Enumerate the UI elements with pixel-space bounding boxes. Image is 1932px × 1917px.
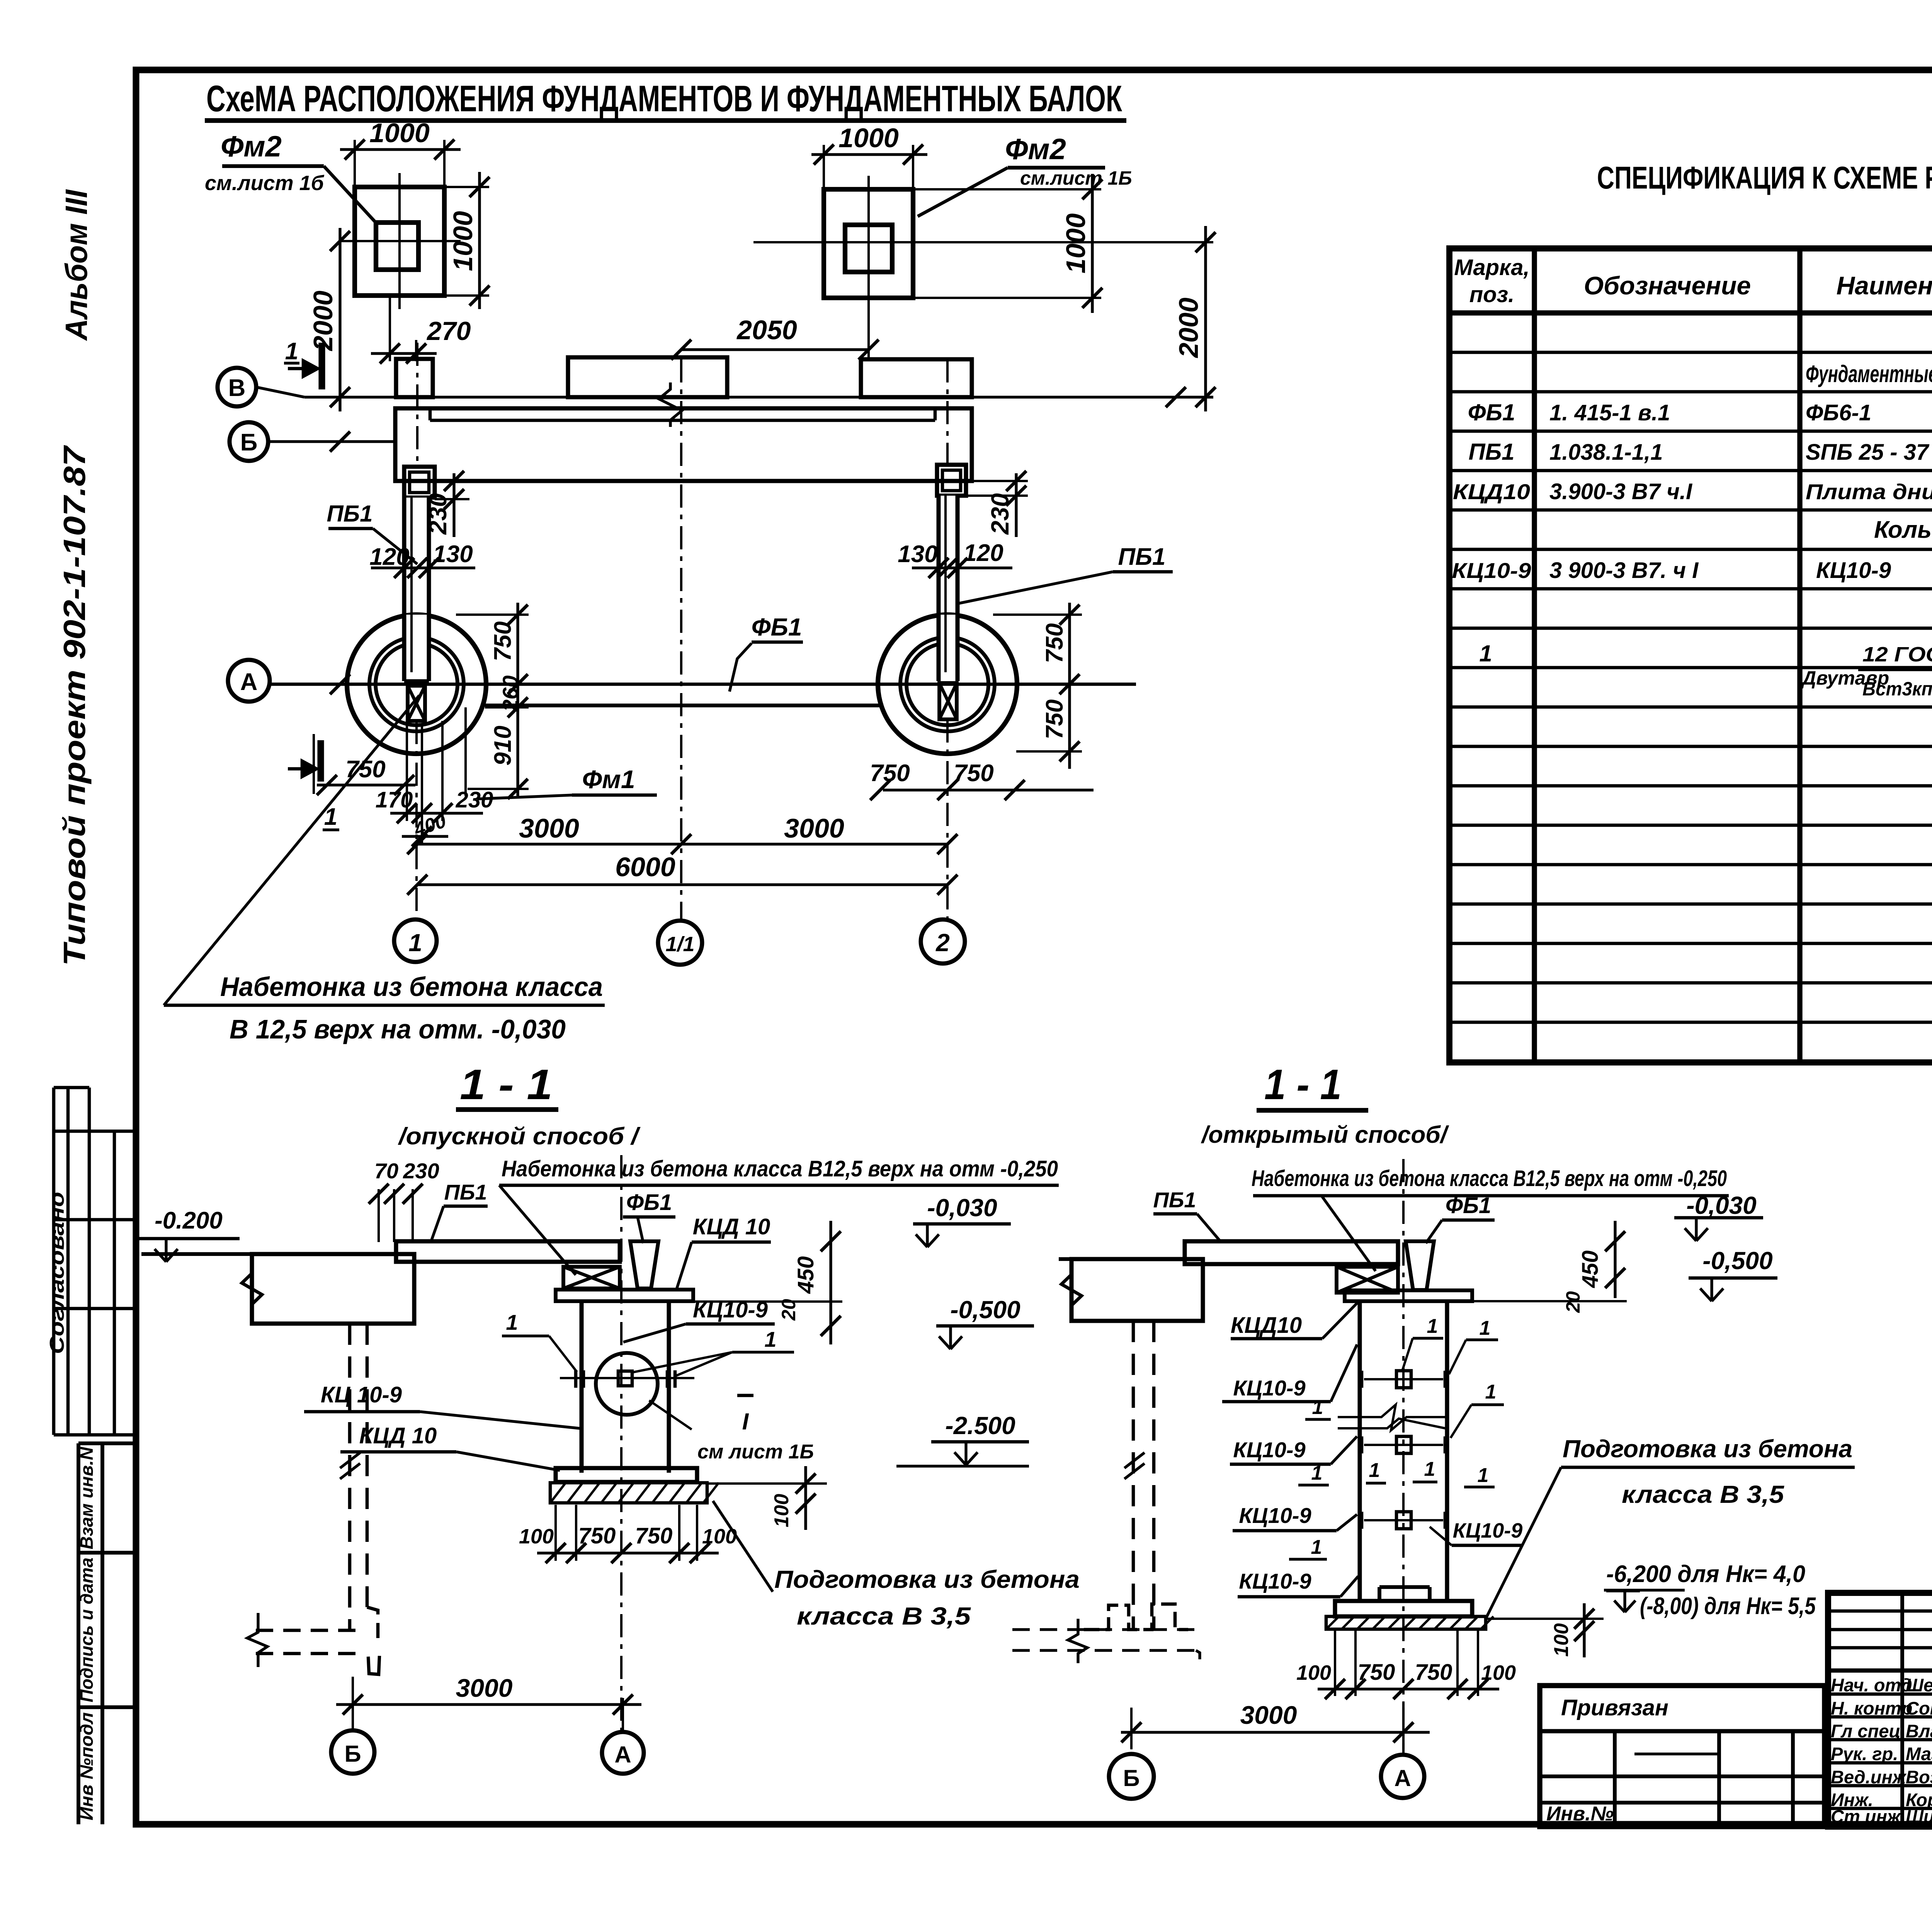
axis circle А (right section) <box>1381 1755 1424 1798</box>
svg-text:1: 1 <box>1311 1462 1323 1484</box>
svg-text:2050: 2050 <box>736 315 797 345</box>
dimension 2000 left (vertical) <box>308 228 350 411</box>
svg-text:ПБ1: ПБ1 <box>444 1180 487 1204</box>
dimensions 750 750 right of right well (vertical) <box>993 603 1082 769</box>
level mark -0,030 (left section) <box>913 1194 1011 1247</box>
svg-text:1: 1 <box>764 1327 776 1351</box>
svg-text:Вст3кп2ГОСТ535-79*: Вст3кп2ГОСТ535-79* <box>1862 678 1932 700</box>
hidden wall dashed lines (left section) <box>340 1324 379 1674</box>
beam ФБ1 trapezoid (right section) <box>1406 1241 1434 1290</box>
dimensions 170 230 400 below left well <box>376 707 493 846</box>
concrete prep hatched strip (left section) <box>550 1483 719 1503</box>
svg-text:1: 1 <box>506 1310 518 1334</box>
dimension 3000 axes Б-А (left section) <box>336 1674 641 1732</box>
svg-text:см лист 1Б: см лист 1Б <box>697 1441 814 1463</box>
labels КЦ10-9 x4 (right section) <box>1222 1344 1358 1597</box>
dimension 70 230 (left section) <box>369 1159 439 1242</box>
title block Привязан table <box>1540 1686 1825 1827</box>
beam strip over right well <box>939 615 957 681</box>
dimension 230 right <box>966 471 1028 537</box>
spec table header texts <box>1454 253 1932 315</box>
svg-text:-0,500: -0,500 <box>1702 1247 1772 1275</box>
svg-text:1: 1 <box>285 338 298 365</box>
dimension 6000 (plan bottom) <box>407 852 957 895</box>
label ФБ1 with leader (plan) <box>730 613 803 692</box>
labels 1 1 with leaders (left section) <box>502 1310 794 1376</box>
svg-text:750: 750 <box>1358 1660 1395 1685</box>
svg-text:100: 100 <box>519 1525 554 1548</box>
svg-text:1: 1 <box>408 929 422 957</box>
axis line 1 (vertical) <box>417 343 417 919</box>
dimension 3000 axes Б-А (right section) <box>1121 1701 1430 1749</box>
svg-text:Подготовка из бетона: Подготовка из бетона <box>774 1565 1080 1593</box>
svg-text:Вед.инж: Вед.инж <box>1831 1767 1907 1787</box>
dimension 450 20 (right section) <box>1472 1221 1627 1313</box>
svg-text:Б: Б <box>240 429 258 456</box>
label ПБ1 right with leader <box>958 544 1173 603</box>
svg-text:-0,030: -0,030 <box>1686 1191 1756 1219</box>
svg-text:1: 1 <box>1311 1536 1322 1558</box>
label ФБ1 (left section) <box>623 1190 675 1243</box>
level mark -2.500 (left section) <box>896 1412 1029 1466</box>
svg-text:Марка,: Марка, <box>1454 255 1529 280</box>
svg-text:ПБ1: ПБ1 <box>1468 439 1514 465</box>
svg-text:см.лист 1Б: см.лист 1Б <box>1020 167 1132 189</box>
footing Фм2 right square <box>753 176 1213 359</box>
svg-text:100: 100 <box>770 1494 793 1528</box>
label ФБ1 (right section) <box>1426 1193 1495 1243</box>
note Подготовка из бетона класса В 3,5 (left section) <box>713 1501 1080 1630</box>
wall section (left section) <box>141 1254 414 1324</box>
svg-text:Б: Б <box>344 1741 361 1767</box>
svg-text:Нач. отд.: Нач. отд. <box>1831 1675 1917 1695</box>
dimension 120 130 left <box>369 541 475 578</box>
axis circle Б (left section) <box>331 1730 374 1774</box>
dimension 100 (left section bottom) <box>707 1466 827 1530</box>
svg-text:450: 450 <box>793 1256 818 1294</box>
svg-text:Н. контр: Н. контр <box>1831 1698 1912 1718</box>
beam end cross mark right well <box>939 683 957 719</box>
svg-text:А: А <box>1394 1765 1411 1791</box>
svg-text:В 12,5 верх на отм. -0,030: В 12,5 верх на отм. -0,030 <box>230 1014 566 1044</box>
svg-text:Фм2: Фм2 <box>221 130 282 163</box>
spec table rows data <box>1452 361 1932 741</box>
svg-text:100: 100 <box>1481 1661 1516 1684</box>
svg-text:класса В 3,5: класса В 3,5 <box>1622 1480 1785 1508</box>
svg-text:Наименование: Наименование <box>1837 271 1932 300</box>
svg-text:Плита днища КЦД10: Плита днища КЦД10 <box>1806 479 1932 504</box>
label КЦД10 (right section) <box>1231 1302 1358 1339</box>
footing Фм2 left square <box>340 173 461 309</box>
note Набетонка В12,5 отм -0,250 (right section) <box>1252 1166 1729 1271</box>
bottom plate КЦД10 (left section) <box>556 1468 697 1482</box>
svg-text:100: 100 <box>1550 1623 1573 1657</box>
svg-text:ФБ1: ФБ1 <box>1468 399 1515 425</box>
svg-text:1. 415-1 в.1: 1. 415-1 в.1 <box>1549 400 1670 425</box>
svg-text:Инв.№: Инв.№ <box>1546 1803 1614 1825</box>
axis line В <box>304 387 1213 407</box>
note Набетонка В12,5 отм -0,250 (left section) <box>499 1156 1059 1275</box>
svg-text:1: 1 <box>1478 1464 1489 1487</box>
svg-text:ФБ1: ФБ1 <box>626 1190 672 1215</box>
svg-text:910: 910 <box>490 726 516 765</box>
level mark -0,030 (right section) <box>1674 1191 1763 1241</box>
svg-text:Б: Б <box>1123 1765 1139 1791</box>
svg-text:Обозначение: Обозначение <box>1584 271 1751 300</box>
svg-text:/открытый способ/: /открытый способ/ <box>1201 1122 1449 1148</box>
svg-text:Подпись и дата: Подпись и дата <box>77 1558 97 1703</box>
svg-text:Фм1: Фм1 <box>582 765 635 794</box>
svg-text:450: 450 <box>1578 1251 1603 1288</box>
pit bottom dashed steps (left section) <box>247 1613 364 1667</box>
label Фм1 with leader <box>477 765 657 799</box>
svg-text:поз.: поз. <box>1469 282 1515 307</box>
beam end cross mark left well <box>408 686 425 721</box>
label I см лист 1Б (left section) <box>649 1395 814 1463</box>
svg-text:КЦ 10-9: КЦ 10-9 <box>321 1382 402 1407</box>
plan title СХЕМА РАСПОЛОЖЕНИЯ ФУНДАМЕНТОВ И ФУНДАМЕНТНЫХ БАЛОК <box>205 78 1126 121</box>
svg-text:3000: 3000 <box>519 813 579 843</box>
axis circle В <box>218 368 304 406</box>
dimension 2000 right (vertical) <box>1173 226 1216 411</box>
svg-text:120: 120 <box>369 544 409 570</box>
level mark -0,200 (left section) <box>138 1207 240 1262</box>
svg-text:100: 100 <box>1296 1661 1331 1684</box>
svg-text:А: А <box>614 1742 631 1767</box>
svg-text:Ст инж: Ст инж <box>1831 1806 1901 1827</box>
svg-text:-0,030: -0,030 <box>927 1194 997 1222</box>
svg-text:3000: 3000 <box>1240 1701 1297 1729</box>
dimension 230 left <box>424 471 469 537</box>
dimension 750 750 below right well <box>870 760 1094 800</box>
svg-text:230: 230 <box>986 493 1014 535</box>
svg-text:КЦ10-9: КЦ10-9 <box>1239 1503 1311 1528</box>
svg-text:Шейко: Шейко <box>1906 1675 1932 1695</box>
svg-text:2: 2 <box>935 929 950 957</box>
svg-text:Возианов: Возианов <box>1906 1767 1932 1787</box>
svg-text:750: 750 <box>870 760 910 787</box>
dimensions 750 260 910 right of left well <box>456 603 529 799</box>
axis line 1/1 (vertical) <box>680 359 682 921</box>
svg-text:(-8,00) для Нк= 5,5: (-8,00) для Нк= 5,5 <box>1640 1593 1816 1620</box>
axis circle А <box>228 660 270 702</box>
spec table grid <box>1449 248 1932 1062</box>
label КЦ 10-9 lower (left section) <box>304 1382 583 1429</box>
axis circle Б (right section) <box>1109 1754 1154 1799</box>
dimension 750 below left well <box>314 734 415 795</box>
svg-text:Фм2: Фм2 <box>1005 133 1066 166</box>
level -6,200 для Нк=4,0 (right section) <box>1604 1561 1816 1620</box>
left margin text Альбом III <box>59 189 94 341</box>
stamp column Взам инв. / Подпись и дата / Инв №подл <box>77 1443 136 1824</box>
svg-text:Рук. гр.: Рук. гр. <box>1831 1744 1898 1764</box>
svg-text:1: 1 <box>1485 1381 1497 1403</box>
svg-text:1: 1 <box>1479 641 1492 666</box>
svg-text:230: 230 <box>403 1159 439 1183</box>
label КЦД 10 lower (left section) <box>340 1423 560 1470</box>
beam strip ПБ1 axis 2 (plan) <box>939 496 957 615</box>
pit bottom dashed steps (right section) <box>1012 1604 1200 1663</box>
svg-text:Набетонка из бетона класса: Набетонка из бетона класса В12,5 верх на… <box>1252 1166 1727 1191</box>
ring joints in shaft (right section) <box>1338 1371 1445 1529</box>
svg-text:ПБ1: ПБ1 <box>1118 544 1166 570</box>
svg-text:ФБ1: ФБ1 <box>1446 1193 1492 1218</box>
svg-text:/опускной способ /: /опускной способ / <box>398 1123 641 1150</box>
axis circle 2 <box>921 919 965 964</box>
dimension 1000 right of left footing (vertical) <box>444 172 490 309</box>
dimension 1000 above left footing <box>340 118 461 187</box>
svg-text:1: 1 <box>1480 1317 1491 1339</box>
note Набетонка из бетона класса В12,5 (plan) <box>164 695 605 1044</box>
svg-text:230: 230 <box>456 787 493 812</box>
svg-text:КЦ10-9: КЦ10-9 <box>1816 558 1891 583</box>
label ПБ1 (left section) <box>431 1180 488 1242</box>
small labels 1 (right section) <box>1289 1315 1504 1559</box>
wall section (right section) <box>1059 1259 1203 1321</box>
dimension 2050 <box>671 315 879 360</box>
svg-text:класса В 3,5: класса В 3,5 <box>797 1602 971 1630</box>
hole circle in shaft (left section) <box>560 1353 694 1415</box>
label ПБ1 left with leader <box>327 501 417 564</box>
svg-text:750: 750 <box>1041 623 1068 663</box>
label КЦ10-9 upper (left section) <box>623 1297 775 1342</box>
hidden wall dashed lines (right section) <box>1124 1321 1154 1630</box>
svg-text:230: 230 <box>424 493 452 535</box>
level mark -0,500 (right section) <box>1689 1247 1777 1301</box>
well shaft walls (left section) <box>582 1155 669 1732</box>
footing Фм2 right label <box>918 133 1132 216</box>
slab КЦД10 plate (left section) <box>556 1290 693 1301</box>
svg-text:КЦД10: КЦД10 <box>1231 1313 1302 1338</box>
svg-text:Кольца: Кольца <box>1874 517 1932 543</box>
svg-text:см.лист 1б: см.лист 1б <box>205 172 325 195</box>
well ring right (КЦ10-9) <box>878 615 1017 754</box>
svg-text:ПБ1: ПБ1 <box>1153 1188 1196 1212</box>
svg-text:КЦД10: КЦД10 <box>1453 479 1530 504</box>
dimension 270 <box>371 296 471 364</box>
svg-text:Фундаментные балки: Фундаментные балки <box>1806 361 1932 387</box>
svg-text:Набетонка из бетона класса: Набетонка из бетона класса В12,5 верх на… <box>502 1156 1058 1181</box>
svg-text:1 - 1: 1 - 1 <box>1264 1061 1342 1108</box>
svg-text:КЦ10-9: КЦ10-9 <box>1233 1376 1305 1400</box>
svg-text:6000: 6000 <box>615 852 675 882</box>
svg-text:2000: 2000 <box>1173 297 1204 359</box>
svg-text:12 ГОСТ8239-72*: 12 ГОСТ8239-72* <box>1862 643 1932 666</box>
label КЦ10-9 right (right section) <box>1430 1519 1523 1545</box>
svg-text:130: 130 <box>898 541 937 568</box>
cross box Набетонка (right section) <box>1337 1267 1398 1293</box>
svg-text:750: 750 <box>578 1523 616 1548</box>
svg-text:1 - 1: 1 - 1 <box>460 1061 553 1108</box>
title block signature grid <box>1828 1593 1932 1827</box>
cross box Набетонка (left section) <box>563 1267 620 1288</box>
beam ПБ1 rect (right section) <box>1185 1241 1398 1264</box>
section title 1-1 опускной способ <box>398 1061 641 1150</box>
svg-text:750: 750 <box>490 621 516 661</box>
axis circle 1/1 <box>658 921 702 965</box>
svg-text:3000: 3000 <box>456 1674 513 1702</box>
column plate at axis 1 below beam <box>404 467 435 498</box>
dimension 450 20 (left section) <box>693 1221 842 1344</box>
svg-text:КЦД 10: КЦД 10 <box>359 1423 437 1448</box>
bottom plate (right section) <box>1335 1587 1472 1616</box>
svg-text:ФБ1: ФБ1 <box>752 613 802 641</box>
svg-text:В: В <box>228 375 246 401</box>
axis circle 1 <box>394 919 437 962</box>
svg-text:750: 750 <box>635 1523 673 1548</box>
beam ФБ1 between wells (plan) <box>485 704 883 707</box>
svg-text:Согласовано: Согласовано <box>46 1192 68 1354</box>
svg-text:-6,200 для Нк= 4,0: -6,200 для Нк= 4,0 <box>1606 1561 1805 1587</box>
spec table title СПЕЦИФИКАЦИЯ <box>1597 160 1932 237</box>
svg-text:-0.200: -0.200 <box>155 1207 223 1234</box>
svg-text:120: 120 <box>963 540 1003 566</box>
svg-text:Альбом III: Альбом III <box>59 189 94 341</box>
dimensions 100 750 750 100 (right section) <box>1296 1628 1516 1699</box>
svg-text:Взам инв.N: Взам инв.N <box>77 1447 97 1550</box>
dimension 3000 3000 (plan bottom) <box>407 813 957 854</box>
dimensions 100 750 750 100 (left section) <box>519 1505 737 1563</box>
svg-text:Подготовка из бетона: Подготовка из бетона <box>1563 1435 1852 1463</box>
svg-text:Гл спец: Гл спец <box>1831 1721 1901 1741</box>
svg-text:1: 1 <box>1427 1315 1438 1337</box>
svg-text:Сокольская: Сокольская <box>1906 1698 1932 1718</box>
svg-text:КЦ10-9: КЦ10-9 <box>1452 558 1531 583</box>
svg-text:ФБ6-1: ФБ6-1 <box>1806 400 1871 425</box>
section cut mark 1 bottom <box>288 740 339 830</box>
svg-text:I: I <box>742 1409 749 1434</box>
stamp table Согласовано <box>46 1088 136 1435</box>
section title 1-1 открытый способ <box>1201 1061 1449 1148</box>
svg-text:КЦД 10: КЦД 10 <box>693 1214 770 1239</box>
svg-text:1000: 1000 <box>1061 213 1091 274</box>
label ПБ1 (right section) <box>1153 1188 1221 1242</box>
svg-text:Власенко: Власенко <box>1906 1721 1932 1741</box>
level mark -0,500 (left section) <box>936 1296 1034 1349</box>
svg-text:1/1: 1/1 <box>665 933 694 956</box>
svg-text:130: 130 <box>433 541 473 568</box>
svg-text:1: 1 <box>1424 1458 1435 1480</box>
svg-text:2000: 2000 <box>308 291 338 352</box>
dimension 100 (right section bottom) <box>1486 1603 1604 1657</box>
svg-text:Шильмовер: Шильмовер <box>1906 1806 1932 1827</box>
svg-text:1: 1 <box>1312 1396 1323 1419</box>
svg-text:3 900-3 В7. ч I: 3 900-3 В7. ч I <box>1549 558 1699 583</box>
svg-text:1.038.1-1,1: 1.038.1-1,1 <box>1549 440 1663 465</box>
beam ПБ1 rect (left section) <box>396 1241 620 1262</box>
beam strip ПБ1 axis 1 (plan) <box>404 498 429 615</box>
svg-text:А: А <box>240 669 258 695</box>
well shaft walls (right section) <box>1360 1159 1447 1754</box>
beam strip over left well <box>404 615 429 681</box>
svg-text:Мазалова: Мазалова <box>1906 1744 1932 1764</box>
svg-text:750: 750 <box>1415 1660 1452 1685</box>
axis line 2 (vertical) <box>946 359 949 919</box>
stepped profile near axis А (left section) <box>0 0 0 0</box>
note Подготовка из бетона класса В 3,5 (right section) <box>1486 1435 1855 1619</box>
svg-text:1: 1 <box>1369 1459 1380 1482</box>
column plate at axis 2 below beam <box>937 465 966 496</box>
dimension 130 120 right <box>898 540 1012 578</box>
axis circle Б <box>230 422 395 461</box>
svg-text:SПБ 25 - 37 (п): SПБ 25 - 37 (п) <box>1806 440 1932 465</box>
concrete prep hatched strip (right section) <box>1326 1616 1493 1629</box>
axis line А <box>270 674 1136 694</box>
section cut mark 1 top <box>284 338 322 389</box>
svg-text:750: 750 <box>1041 699 1068 739</box>
well ring left (КЦ10-9) <box>347 615 486 754</box>
svg-text:270: 270 <box>426 316 471 346</box>
svg-text:1000: 1000 <box>838 123 899 153</box>
svg-text:170: 170 <box>376 787 413 812</box>
svg-text:Инв №подл: Инв №подл <box>77 1712 97 1820</box>
wall stub rectangles above axis В <box>396 357 972 397</box>
svg-text:1000: 1000 <box>448 211 478 271</box>
title block signature names <box>1831 1675 1932 1827</box>
left margin text Типовой проект 902-1-107.87 <box>57 445 92 966</box>
label КЦД 10 (left section top) <box>676 1214 771 1290</box>
svg-text:3.900-3 В7 ч.I: 3.900-3 В7 ч.I <box>1549 479 1693 504</box>
title block main frame <box>1828 1593 1932 1827</box>
svg-text:Набетонка из бетона класса: Набетонка из бетона класса <box>220 972 603 1002</box>
svg-text:-2.500: -2.500 <box>945 1412 1015 1439</box>
dimension 1000 above right footing <box>811 123 927 189</box>
footing Фм2 left label <box>205 130 378 225</box>
svg-text:ПБ1: ПБ1 <box>327 501 372 527</box>
dimension 1000 right of right footing (vertical) <box>913 174 1102 313</box>
svg-text:КЦ10-9: КЦ10-9 <box>1239 1569 1311 1593</box>
svg-text:3000: 3000 <box>784 813 844 843</box>
svg-text:1000: 1000 <box>369 118 430 148</box>
svg-text:Привязан: Привязан <box>1561 1695 1668 1720</box>
slab КЦД10 plate (right section) <box>1345 1290 1472 1301</box>
svg-text:Типовой проект 902-1-107.87: Типовой проект 902-1-107.87 <box>57 445 92 966</box>
svg-text:КЦ10-9: КЦ10-9 <box>1233 1438 1305 1462</box>
svg-text:750: 750 <box>954 760 993 787</box>
svg-text:260: 260 <box>498 675 522 712</box>
svg-text:КЦ10-9: КЦ10-9 <box>1453 1519 1523 1542</box>
svg-text:-0,500: -0,500 <box>950 1296 1020 1324</box>
svg-text:СхеМА РАСПОЛОЖЕНИЯ ФУНДАМЕ: СхеМА РАСПОЛОЖЕНИЯ ФУНДАМЕНТОВ И ФУНДАМЕ… <box>206 78 1122 119</box>
beam ФБ1 trapezoid (left section) <box>630 1241 658 1288</box>
svg-text:СПЕЦИФИКАЦИЯ К СХЕМЕ РАСПО: СПЕЦИФИКАЦИЯ К СХЕМЕ РАСПОЛОЖЕНИЯ ФУНДАМ… <box>1597 160 1932 195</box>
foundation beam band ФБ1 plan <box>395 382 972 481</box>
svg-text:70: 70 <box>374 1159 398 1183</box>
axis circle А (left section) <box>602 1732 644 1774</box>
